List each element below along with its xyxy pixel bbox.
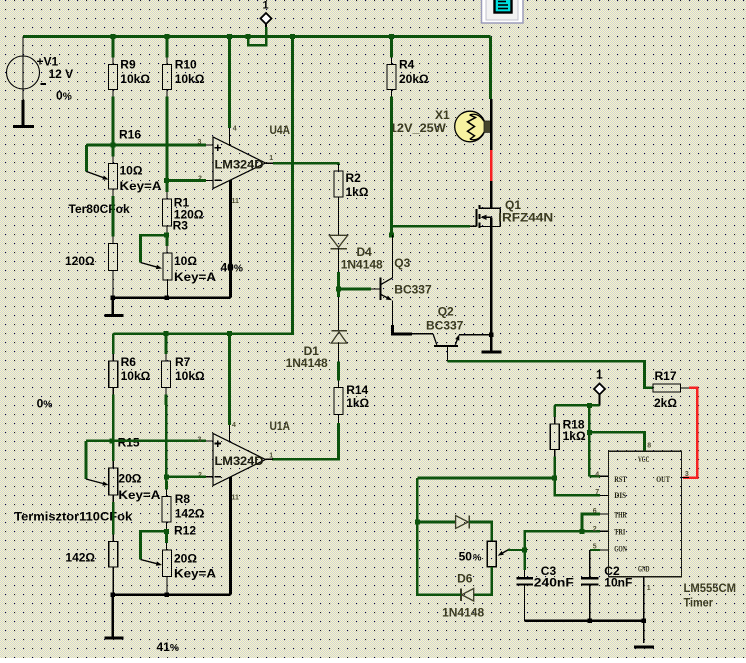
- potentiometer R16: [109, 164, 118, 190]
- svg-text:Key=A: Key=A: [174, 270, 216, 284]
- svg-text:LM324D: LM324D: [215, 157, 264, 171]
- wire to upper-left ground: [111, 298, 114, 315]
- wire R14 to U1A output: [338, 415, 340, 424]
- junction R10 rail: [165, 34, 170, 39]
- wire U1A pin11 to bus: [229, 477, 232, 595]
- potentiometer 50%: [487, 541, 496, 567]
- wire R4 chain overlay: [390, 118, 393, 135]
- wire lamp to drain black: [490, 99, 493, 150]
- resistor R2: [334, 171, 343, 197]
- wire output to R2: [337, 163, 340, 165]
- svg-text:BC337: BC337: [426, 318, 464, 332]
- svg-text:X1: X1: [435, 108, 450, 122]
- junction net1: [587, 403, 592, 408]
- resistor R7: [162, 361, 171, 388]
- wire R16 wiper: [87, 144, 207, 147]
- svg-text:8: 8: [647, 442, 651, 449]
- svg-text:1: 1: [647, 585, 651, 592]
- node icon button top: [482, 0, 524, 23]
- svg-text:4: 4: [233, 125, 237, 132]
- wire V1 to ground: [22, 100, 25, 126]
- svg-text:R12: R12: [174, 524, 196, 538]
- wire R15 to 142: [112, 495, 114, 502]
- svg-text:1kΩ: 1kΩ: [346, 185, 369, 199]
- junction R7 lower rail: [164, 331, 169, 336]
- junction GND stub: [641, 619, 646, 624]
- svg-text:1: 1: [596, 367, 603, 381]
- svg-text:VCC: VCC: [638, 455, 650, 464]
- svg-text:11: 11: [232, 495, 240, 502]
- svg-text:12 V: 12 V: [49, 67, 74, 81]
- junction gate node: [389, 233, 394, 238]
- svg-text:1: 1: [262, 0, 268, 11]
- svg-text:1: 1: [269, 155, 273, 162]
- junction R12 loop: [164, 529, 169, 534]
- mosfet Q1: [476, 209, 478, 226]
- arrow R12 wiper: [141, 560, 157, 564]
- wire U4A output: [266, 162, 274, 164]
- svg-text:10Ω: 10Ω: [120, 163, 143, 177]
- junction VCC branch: [587, 430, 592, 435]
- wire Q2 base: [447, 347, 449, 361]
- svg-text:3: 3: [198, 436, 202, 443]
- wire R10 chain: [166, 37, 169, 58]
- resistor R9: [109, 65, 118, 90]
- lamp X1: [455, 111, 486, 142]
- svg-text:Termisztor110CFok: Termisztor110CFok: [14, 509, 132, 523]
- wire to black bus: [112, 271, 114, 298]
- svg-text:CON: CON: [614, 545, 627, 554]
- svg-text:LM324D: LM324D: [215, 454, 264, 468]
- wire R7 chain: [165, 334, 168, 354]
- wire Q2 base to R17 node: [448, 361, 654, 388]
- junction bus 120ohm: [110, 295, 115, 300]
- svg-text:20Ω: 20Ω: [118, 472, 141, 486]
- wire R6 chain: [112, 334, 115, 354]
- resistor R8: [162, 497, 171, 523]
- svg-text:DIS: DIS: [614, 491, 626, 500]
- wire U1A minus input: [167, 475, 207, 478]
- junction wiper/C3/TRI: [522, 547, 527, 552]
- svg-text:50: 50: [459, 550, 473, 564]
- wire D4 to Q3 base node: [338, 249, 340, 272]
- wire to D5: [417, 521, 455, 524]
- wire wiper to junction: [508, 549, 526, 551]
- junction U1A pin4 rail: [227, 331, 232, 336]
- black bus lower: [113, 593, 231, 596]
- black bus upper: [113, 296, 231, 299]
- arrow R16 wiper: [87, 172, 104, 178]
- wire 555 GND pin: [643, 577, 645, 643]
- wire R2 to D4: [338, 197, 340, 235]
- svg-text:Key=A: Key=A: [120, 179, 162, 193]
- resistor R18: [553, 405, 556, 417]
- wire D5 to pot: [469, 522, 492, 541]
- svg-text:BC337: BC337: [394, 283, 432, 297]
- wire V1 lead: [22, 37, 24, 101]
- junction R18 bottom: [552, 476, 557, 481]
- resistor R4: [387, 65, 396, 90]
- svg-text:Key=A: Key=A: [174, 567, 216, 581]
- svg-text:0%: 0%: [37, 397, 53, 411]
- svg-text:10kΩ: 10kΩ: [175, 369, 205, 383]
- ground under Q1: [481, 350, 501, 353]
- junction connector stub: [246, 34, 251, 39]
- wire bottom bus right: [525, 620, 644, 623]
- svg-text:U1A: U1A: [270, 419, 291, 433]
- wire Q1 source down: [490, 217, 493, 350]
- svg-text:GND: GND: [638, 565, 650, 574]
- wire D6 to loop: [417, 522, 461, 595]
- svg-text:1N4148: 1N4148: [286, 356, 328, 370]
- wire DIS net: [417, 477, 554, 480]
- junction U4A minus row: [164, 178, 169, 183]
- junction R4 rail: [389, 34, 394, 39]
- wire lamp top from rail: [489, 37, 492, 100]
- arrow pot wiper: [503, 549, 510, 553]
- diode D4: [329, 235, 347, 247]
- potentiometer R15: [109, 468, 118, 495]
- svg-text:10kΩ: 10kΩ: [121, 369, 151, 383]
- svg-text:1: 1: [269, 452, 273, 459]
- junction C2 bottom: [588, 619, 593, 624]
- svg-text:R10: R10: [175, 58, 197, 72]
- svg-text:7: 7: [595, 489, 599, 496]
- diode D1: [331, 330, 347, 332]
- wire Q2 emitter: [459, 334, 491, 336]
- svg-text:120Ω: 120Ω: [65, 254, 95, 268]
- svg-text:Timer: Timer: [684, 595, 714, 609]
- capacitor C2: [581, 577, 598, 579]
- wire R15 wiper: [86, 440, 206, 443]
- svg-text:R4: R4: [399, 58, 415, 72]
- wire R16 to R120: [112, 189, 114, 196]
- svg-text:R14: R14: [346, 383, 368, 397]
- svg-text:R17: R17: [655, 369, 677, 383]
- wire pot bottom to D6: [474, 567, 492, 595]
- diode D6: [462, 589, 474, 602]
- IC U3 LM555CM box: [609, 451, 682, 577]
- svg-text:0%: 0%: [56, 88, 72, 102]
- svg-text:2kΩ: 2kΩ: [654, 396, 677, 410]
- svg-text:D6: D6: [457, 572, 473, 586]
- junction wiper row R15: [109, 438, 114, 443]
- wire R9 chain: [112, 37, 115, 58]
- resistor 142Ohm lower: [109, 542, 118, 568]
- svg-text:1N4148: 1N4148: [442, 605, 484, 619]
- svg-text:U4A: U4A: [270, 123, 291, 137]
- resistor 120Ohm upper: [109, 244, 118, 271]
- resistor R1: [163, 199, 172, 226]
- svg-text:Ter80CFok: Ter80CFok: [69, 202, 130, 216]
- wire node to D1: [337, 291, 340, 297]
- junction Q3 base node: [336, 287, 341, 292]
- svg-text:R16: R16: [119, 128, 141, 142]
- transistor Q2 BC337: [433, 334, 437, 345]
- svg-text:142Ω: 142Ω: [175, 507, 205, 521]
- op-amp U4A: [213, 137, 266, 189]
- svg-text:4: 4: [595, 472, 599, 479]
- wire C2 bottom: [589, 586, 591, 621]
- svg-text:3: 3: [685, 471, 689, 478]
- junction R9 rail: [111, 34, 116, 39]
- connector 1 top diamond: [261, 13, 272, 24]
- wire C3 top: [523, 550, 526, 570]
- potentiometer R3: [163, 253, 172, 280]
- transistor Q3 BC337: [339, 288, 372, 291]
- svg-text:11: 11: [232, 198, 240, 205]
- op-amp U1A: [213, 434, 266, 486]
- wire TRI branch: [525, 531, 600, 550]
- wire R3 wiper loop: [141, 235, 167, 262]
- svg-text:R7: R7: [175, 355, 191, 369]
- svg-text:%: %: [473, 553, 482, 564]
- svg-text:10Ω: 10Ω: [174, 254, 197, 268]
- wire R12 wiper loop: [141, 531, 167, 559]
- resistor R17: [653, 384, 681, 392]
- wire C3 bottom: [524, 586, 526, 621]
- svg-text:R15: R15: [118, 436, 140, 450]
- wire U1A pin4: [228, 334, 231, 425]
- ground lower-left: [105, 637, 124, 640]
- junction bus R12: [164, 592, 169, 597]
- ground bottom right: [634, 645, 654, 648]
- svg-text:5: 5: [593, 543, 597, 550]
- wire VCC branch: [589, 432, 644, 451]
- svg-text:Q2: Q2: [438, 304, 454, 318]
- svg-text:10kΩ: 10kΩ: [175, 72, 205, 86]
- wire red segment: [490, 150, 493, 181]
- wire Q3 collector: [392, 235, 394, 278]
- wire RST stub: [589, 475, 600, 478]
- svg-text:R6: R6: [121, 355, 137, 369]
- junction THR/TRI: [580, 529, 585, 534]
- wire R9 to R16: [112, 90, 114, 97]
- junction Q2 emitter: [489, 333, 494, 338]
- svg-text:R2: R2: [346, 171, 362, 185]
- svg-text:6: 6: [593, 508, 597, 515]
- svg-text:Key=A: Key=A: [118, 488, 160, 502]
- svg-text:R3: R3: [173, 218, 189, 232]
- junction bus R3: [164, 295, 169, 300]
- ground below V1: [13, 125, 34, 128]
- svg-text:240nF: 240nF: [534, 576, 574, 590]
- wire R4 to Q1 gate: [390, 97, 393, 238]
- wire U4A pin11 to ground bus: [229, 180, 232, 298]
- wire connector stub: [599, 395, 601, 406]
- wire R17 red to OUT: [681, 387, 690, 389]
- svg-text:20Ω: 20Ω: [174, 552, 197, 566]
- svg-text:1N4148: 1N4148: [341, 257, 383, 271]
- svg-text:10kΩ: 10kΩ: [120, 72, 150, 86]
- svg-text:IRFZ44N: IRFZ44N: [498, 210, 553, 224]
- capacitor C3: [516, 577, 533, 579]
- svg-text:Q3: Q3: [394, 256, 410, 270]
- svg-text:12V_25W: 12V_25W: [390, 121, 447, 135]
- arrow R3 wiper: [141, 263, 157, 267]
- wire connector 1 stub: [265, 24, 267, 33]
- wire U4A minus input: [167, 179, 207, 182]
- resistor R6: [109, 361, 118, 388]
- svg-text:OUT: OUT: [656, 475, 670, 484]
- wire gate row: [392, 225, 471, 228]
- junction diode loop: [415, 520, 420, 525]
- wire mid supply vertical: [113, 37, 292, 334]
- wire to lower-left ground: [111, 595, 114, 637]
- diode D5: [456, 516, 469, 529]
- arrow R15 wiper: [86, 479, 103, 484]
- junction U1A minus row: [164, 474, 169, 479]
- ground upper-left: [105, 314, 124, 317]
- svg-text:THR: THR: [614, 511, 626, 520]
- svg-text:20kΩ: 20kΩ: [399, 72, 429, 86]
- wire D1 to R14: [338, 343, 340, 361]
- svg-text:1kΩ: 1kΩ: [346, 396, 369, 410]
- junction R3 loop: [164, 233, 169, 238]
- svg-text:2: 2: [593, 526, 597, 533]
- svg-text:1kΩ: 1kΩ: [563, 429, 586, 443]
- svg-text:R9: R9: [120, 58, 136, 72]
- wire +12V top rail: [23, 35, 491, 38]
- wire Q3 emitter to Q2: [392, 300, 394, 325]
- svg-text:LM555CM: LM555CM: [684, 581, 737, 595]
- wire R4 chain: [390, 37, 393, 58]
- resistor R10: [163, 65, 172, 90]
- wire U4A pin4: [228, 37, 231, 129]
- svg-text:41%: 41%: [157, 640, 179, 654]
- wire left loop vertical: [416, 478, 419, 523]
- svg-text:4: 4: [232, 422, 236, 429]
- junction mid vertical rail: [290, 34, 295, 39]
- junction bus 142: [110, 592, 115, 597]
- junction U4A pin4 rail: [227, 34, 232, 39]
- wire net1 horizontal: [555, 404, 600, 407]
- resistor R14: [334, 388, 343, 415]
- wire net1 vertical to RST: [588, 405, 591, 476]
- svg-text:R8: R8: [175, 492, 191, 506]
- potentiometer R12: [163, 550, 172, 577]
- wire THR branch: [582, 514, 600, 531]
- wire CON to C2: [590, 549, 600, 551]
- svg-text:142Ω: 142Ω: [65, 550, 95, 564]
- svg-text:TRI: TRI: [614, 528, 625, 537]
- svg-text:3: 3: [198, 139, 202, 146]
- connector 1 bottom diamond: [594, 384, 605, 395]
- junction wiper row R16: [111, 143, 116, 148]
- svg-text:RST: RST: [614, 475, 627, 484]
- svg-text:10nF: 10nF: [604, 576, 632, 590]
- voltage source V1: [7, 56, 40, 89]
